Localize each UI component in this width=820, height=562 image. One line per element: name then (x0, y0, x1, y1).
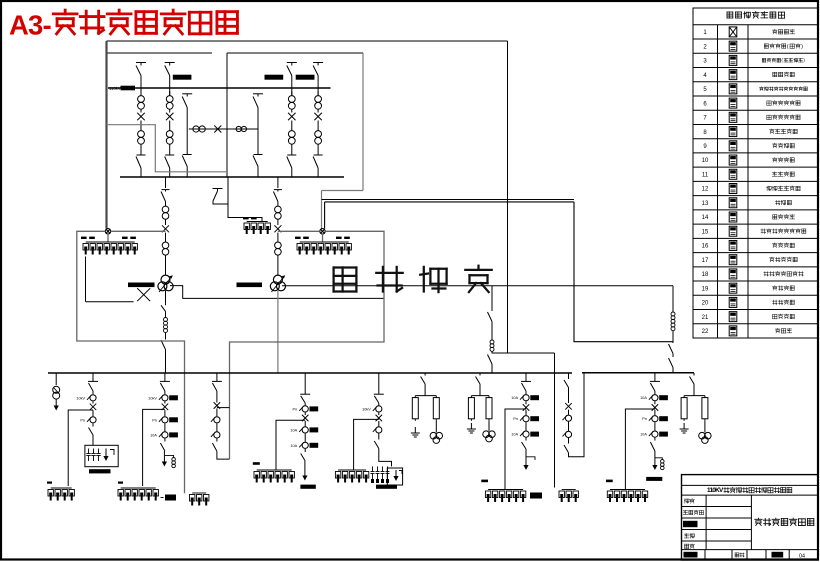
svg-text:16: 16 (702, 244, 709, 250)
svg-text:17: 17 (702, 258, 709, 264)
svg-text:14: 14 (702, 215, 709, 221)
svg-text:21: 21 (702, 315, 709, 321)
svg-text:110kV: 110kV (109, 86, 121, 91)
svg-text:11: 11 (702, 172, 709, 178)
svg-text:13: 13 (702, 201, 709, 207)
svg-text:10A: 10A (290, 428, 297, 432)
svg-text:10kV: 10kV (148, 396, 157, 400)
svg-text:12: 12 (702, 187, 709, 193)
svg-text:22: 22 (702, 329, 709, 335)
svg-text:10kV: 10kV (362, 407, 371, 411)
svg-text:10A: 10A (511, 396, 518, 400)
svg-text:A3-: A3- (9, 10, 52, 41)
svg-text:10A: 10A (150, 433, 157, 437)
svg-text:Pn: Pn (80, 418, 85, 422)
svg-text:10kV: 10kV (76, 396, 85, 400)
svg-text:10A: 10A (640, 433, 647, 437)
svg-text:10A: 10A (290, 444, 297, 448)
svg-text:10A: 10A (640, 396, 647, 400)
svg-text:10: 10 (702, 158, 709, 164)
svg-text:Pn: Pn (152, 418, 157, 422)
svg-text:(: ( (787, 44, 789, 50)
svg-text:19: 19 (702, 286, 709, 292)
svg-text:110KV: 110KV (707, 487, 724, 494)
svg-text:Pn: Pn (642, 417, 647, 421)
svg-text:04: 04 (799, 554, 805, 560)
svg-text:): ) (801, 44, 803, 50)
svg-text:15: 15 (702, 229, 709, 235)
svg-text:10A: 10A (511, 433, 518, 437)
svg-text:Pn: Pn (293, 407, 298, 411)
svg-text:20: 20 (702, 301, 709, 307)
svg-text:18: 18 (702, 272, 709, 278)
svg-text:Pn: Pn (513, 417, 518, 421)
